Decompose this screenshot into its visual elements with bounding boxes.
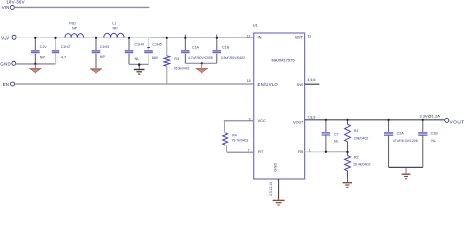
svg-text:C2A: C2A [397, 132, 405, 136]
svg-text:FB1: FB1 [69, 22, 76, 26]
svg-text:C1H2: C1H2 [61, 45, 70, 49]
wire VOUT rail [305, 119, 445, 121]
svg-text:4.7: 4.7 [61, 55, 66, 59]
wire SW pin stub [305, 83, 320, 85]
svg-text:11: 11 [307, 35, 311, 39]
wire FB net C7 to divider [326, 151, 348, 153]
svg-text:18V-36V: 18V-36V [6, 0, 25, 5]
svg-text:R2: R2 [354, 156, 359, 160]
junction VOUT rail / C7 [325, 119, 327, 121]
ground under C1A/C1B [201, 63, 203, 68]
svg-text:15: 15 [247, 79, 251, 83]
capacitor C2B [422, 120, 424, 132]
junction input rail / C1H4 [128, 37, 130, 39]
svg-text:U1: U1 [253, 23, 258, 28]
svg-text:VOUT: VOUT [450, 119, 465, 124]
svg-text:EN/UVLO: EN/UVLO [258, 82, 279, 87]
wire GND rail [16, 63, 56, 65]
resistor R4 [223, 121, 225, 133]
wire RT pin [227, 151, 254, 153]
junction FB net / C7 [325, 151, 327, 153]
junction input rail / C1H3 [95, 37, 97, 39]
wire FB net (faint) [305, 151, 326, 153]
svg-text:VSV: VSV [1, 35, 9, 41]
junction input rail / R3 [166, 37, 168, 39]
svg-text:20k/0402: 20k/0402 [354, 137, 368, 141]
svg-text:BST: BST [295, 35, 303, 40]
ground under C1H1 [34, 64, 36, 68]
junction input rail / C1A [184, 35, 186, 38]
junction C1A/C1B ground rail [201, 62, 203, 64]
svg-text:3.3V@1.2A: 3.3V@1.2A [419, 114, 440, 119]
svg-text:NP: NP [113, 27, 119, 31]
svg-text:C1H3: C1H3 [100, 45, 109, 49]
junction GND rail / C1H1 [34, 63, 36, 65]
resistor R2 [347, 152, 349, 156]
ground under C1H3 [90, 67, 102, 70]
capacitor C1H2 [55, 38, 57, 50]
wire VCC pin [224, 120, 254, 122]
svg-text:C1V: C1V [40, 45, 48, 49]
ferrite bead FB1 [65, 34, 84, 38]
resistor R3 [166, 38, 168, 56]
svg-text:680: 680 [152, 56, 158, 60]
capacitor C7 feed-forward [325, 120, 327, 132]
capacitor C1H1 [34, 38, 36, 50]
svg-text:2,5,12,13: 2,5,12,13 [269, 182, 273, 196]
svg-text:910k/0402: 910k/0402 [174, 66, 190, 70]
svg-text:EN: EN [3, 82, 10, 87]
svg-text:C1A: C1A [192, 45, 200, 49]
capacitor C1H5 [148, 38, 150, 50]
svg-text:NL: NL [431, 139, 436, 143]
junction FB net / R1-R2 [346, 151, 348, 153]
svg-text:GND: GND [0, 61, 11, 66]
svg-text:4,5,6: 4,5,6 [307, 78, 315, 82]
svg-text:C2B: C2B [431, 132, 439, 136]
svg-text:4.7uF/50V/C005: 4.7uF/50V/C005 [188, 56, 213, 60]
junction input rail / C1B [216, 35, 218, 38]
svg-text:26.4k/0402: 26.4k/0402 [353, 162, 370, 166]
junction VOUT rail / C2A [388, 119, 390, 121]
capacitor C1B [216, 38, 218, 50]
svg-text:IN: IN [258, 35, 262, 40]
wire C1A-C1B ground rail [185, 62, 217, 64]
wire input rail left (faint) [34, 37, 150, 39]
svg-text:7,8,9: 7,8,9 [307, 116, 315, 120]
capacitor C1A [184, 38, 186, 50]
svg-text:3.9uF/50V/0402: 3.9uF/50V/0402 [221, 56, 245, 60]
junction input rail / C1H2 [54, 37, 56, 39]
svg-text:C1B: C1B [222, 45, 230, 49]
inductor L1 [104, 33, 124, 37]
IC U1 MAXM17575 box [254, 33, 305, 179]
svg-text:C1H5: C1H5 [152, 43, 161, 47]
ground under IC GND pin [273, 200, 285, 201]
junction VOUT rail / R1 [346, 119, 348, 121]
svg-text:12: 12 [246, 34, 250, 38]
svg-text:NL: NL [135, 57, 140, 61]
wire input rail right (faint) [150, 37, 254, 39]
svg-text:VCC: VCC [258, 118, 267, 123]
junction ground rail mid [138, 63, 141, 66]
wire EN rail [15, 83, 254, 85]
ground (dark) under C1H4/C1H5 [138, 65, 140, 69]
svg-text:C7: C7 [334, 132, 339, 136]
svg-text:R4: R4 [232, 134, 237, 138]
junction input rail / C1H1 [34, 37, 36, 39]
svg-text:GND: GND [273, 163, 278, 172]
wire C2A-C2B ground rail [389, 166, 423, 168]
svg-text:NL: NL [334, 139, 339, 143]
capacitor C2A [388, 120, 390, 132]
svg-text:79.7k/0402: 79.7k/0402 [232, 139, 249, 143]
capacitor C1H4 [128, 38, 130, 50]
svg-text:R3: R3 [174, 57, 179, 61]
ground under C2A/C2B [405, 167, 407, 173]
svg-text:47uF/6.3V/1206: 47uF/6.3V/1206 [393, 139, 418, 143]
svg-text:NP: NP [72, 27, 78, 31]
ground under R2 [343, 182, 352, 183]
svg-text:NP: NP [100, 55, 106, 59]
svg-text:SW: SW [297, 82, 304, 87]
svg-text:FB: FB [298, 149, 303, 154]
svg-text:NP: NP [40, 55, 46, 59]
svg-text:RT: RT [258, 149, 264, 154]
svg-text:L1: L1 [112, 22, 116, 26]
svg-text:VIN: VIN [2, 5, 10, 10]
svg-text:VOUT: VOUT [293, 120, 304, 124]
wire C1H4-C1H5 ground rail [129, 63, 149, 65]
resistor R1 [347, 120, 349, 124]
wire input rail far left (very faint) [16, 37, 34, 39]
svg-text:MAXM17575: MAXM17575 [271, 57, 295, 62]
capacitor C1H3 [95, 38, 97, 50]
port VOUT [445, 118, 449, 122]
wire GND pin [278, 179, 280, 200]
wire VIN rail [14, 6, 149, 8]
svg-text:R1: R1 [354, 129, 359, 133]
svg-text:C1H4: C1H4 [134, 43, 143, 47]
junction VOUT rail / C2B [422, 119, 424, 121]
